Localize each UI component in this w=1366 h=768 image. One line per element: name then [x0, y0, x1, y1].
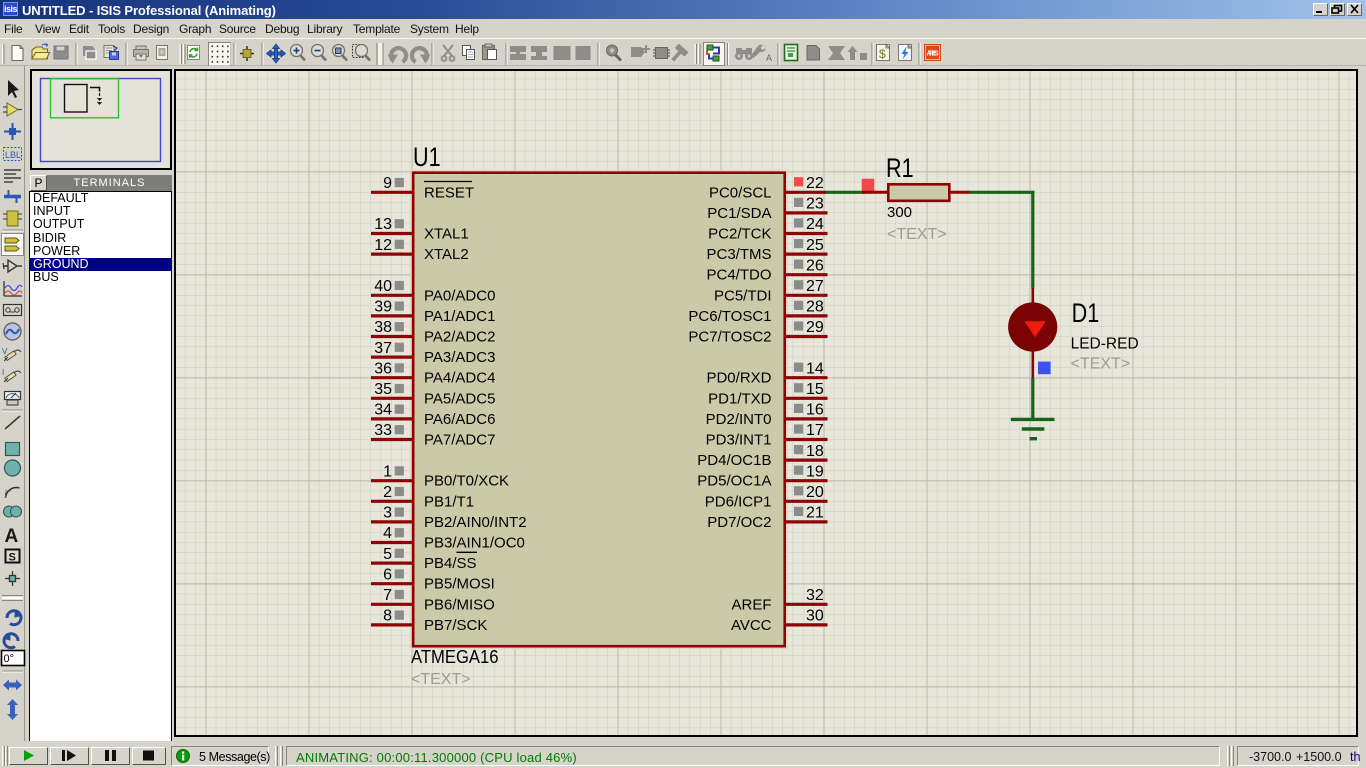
P button [30, 175, 47, 191]
U1 pin 24 (PC2/TCK) right stub + number [786, 216, 828, 233]
U1 pin 18 (PD4/OC1B) right stub + number [786, 443, 828, 460]
svg-text:20: 20 [806, 484, 824, 501]
U1 pin 35 (PA5/ADC5) left stub + number + state square [371, 381, 413, 398]
svg-text:RESET: RESET [424, 184, 474, 201]
svg-text:19: 19 [806, 463, 824, 480]
svg-text:1: 1 [383, 463, 392, 480]
svg-text:28: 28 [806, 299, 824, 316]
U1 pin 14 (PD0/RXD) right stub + number [786, 360, 828, 377]
animating status panel [286, 746, 1220, 766]
U1 pin 4 (PB3/AIN1/OC0) left stub + number + state square [371, 525, 413, 542]
svg-text:A: A [766, 53, 772, 63]
svg-text:PD4/OC1B: PD4/OC1B [697, 452, 771, 469]
svg-text:23: 23 [806, 196, 824, 213]
U1 pin 13 (XTAL1) left stub + number + state square [371, 216, 413, 233]
U1 pin 17 (PD3/INT1) right stub + number [786, 422, 828, 439]
svg-text:5: 5 [383, 546, 392, 563]
U1 pin 1 (PB0/T0/XCK) left stub + number + state square [371, 463, 413, 480]
svg-text:PA4/ADC4: PA4/ADC4 [424, 370, 495, 387]
svg-text:16: 16 [806, 402, 824, 419]
terminals list [29, 191, 172, 742]
svg-text:V: V [2, 347, 8, 356]
svg-text:6: 6 [383, 566, 392, 583]
svg-text:8: 8 [383, 608, 392, 625]
svg-text:36: 36 [374, 360, 392, 377]
svg-text:35: 35 [374, 381, 392, 398]
D1 reference label [1072, 299, 1100, 329]
svg-text:U1: U1 [413, 143, 441, 173]
svg-text:33: 33 [374, 422, 392, 439]
text script tool [4, 170, 21, 182]
2D circle tool [5, 460, 21, 476]
LED D1 body [1008, 302, 1057, 351]
menu bar [0, 19, 1366, 38]
separator [2, 596, 23, 601]
U1 pin 25 (PC3/TMS) right stub + number [786, 237, 828, 254]
U1 pin 32 (AREF) right stub + number [786, 587, 828, 604]
svg-text:PC7/TOSC2: PC7/TOSC2 [688, 329, 771, 346]
svg-text:22: 22 [806, 175, 824, 192]
svg-text:PC4/TDO: PC4/TDO [706, 267, 771, 284]
svg-text:PD0/RXD: PD0/RXD [706, 370, 771, 387]
svg-text:PA7/ADC7: PA7/ADC7 [424, 432, 495, 449]
bus tool [4, 190, 21, 203]
graph mode tool [4, 281, 22, 296]
svg-text:3: 3 [383, 505, 392, 522]
rotate clockwise tool [7, 610, 22, 625]
tape recorder tool [4, 305, 22, 316]
svg-text:PD3/INT1: PD3/INT1 [706, 432, 772, 449]
terminal mode tool [3, 260, 22, 272]
current probe tool [2, 368, 21, 382]
minimap resistor/wire mark [90, 88, 100, 92]
U1 pin 38 (PA2/ADC2) left stub + number + state square [371, 319, 413, 336]
svg-text:24: 24 [806, 216, 824, 233]
status bar [0, 741, 1366, 768]
svg-text:PC6/TOSC1: PC6/TOSC1 [688, 308, 771, 325]
svg-text:PB6/MISO: PB6/MISO [424, 596, 495, 613]
U1 pin name label RESET [424, 182, 474, 202]
U1 pin 5 (PB4/SS) left stub + number + state square [371, 546, 413, 563]
svg-text:PA2/ADC2: PA2/ADC2 [424, 329, 495, 346]
LED D1 cathode pin [1032, 352, 1035, 379]
svg-text:<TEXT>: <TEXT> [411, 671, 471, 688]
left tool column [0, 66, 26, 741]
U1 pin 2 (PB1/T1) left stub + number + state square [371, 484, 413, 501]
svg-text:17: 17 [806, 422, 824, 439]
wire U1 pin22 to R1 [826, 191, 865, 194]
svg-text:25: 25 [806, 237, 824, 254]
coordinates panel [1237, 746, 1359, 766]
U1 pin name label PB4/SS [424, 552, 477, 572]
svg-text:PB7/SCK: PB7/SCK [424, 617, 487, 634]
svg-text:XTAL2: XTAL2 [424, 246, 469, 263]
ground symbol [1011, 419, 1055, 438]
wire label tool LBL [4, 148, 22, 161]
svg-text:LBL: LBL [5, 150, 21, 160]
svg-text:XTAL1: XTAL1 [424, 226, 469, 243]
junction dot tool [4, 123, 21, 140]
U1 reference label [413, 143, 441, 173]
svg-text:PC0/SCL: PC0/SCL [709, 184, 772, 201]
window title bar [0, 0, 1366, 19]
svg-text:4: 4 [383, 525, 392, 542]
svg-text:7: 7 [383, 587, 392, 604]
svg-text:PC2/TCK: PC2/TCK [708, 226, 771, 243]
message panel [171, 746, 269, 766]
U1 pin 3 (PB2/AIN0/INT2) left stub + number + state square [371, 505, 413, 522]
svg-text:PD2/INT0: PD2/INT0 [706, 411, 772, 428]
U1 pin 34 (PA6/ADC6) left stub + number + state square [371, 402, 413, 419]
2D closed path tool [4, 506, 22, 517]
U1 pin 16 (PD2/INT0) right stub + number [786, 402, 828, 419]
U1 pin 26 (PC4/TDO) right stub + number [786, 257, 828, 274]
U1 pin 22 (PC0/SCL) right stub + number [786, 175, 828, 192]
U1 pin 36 (PA4/ADC4) left stub + number + state square [371, 360, 413, 377]
R1 reference label [886, 154, 914, 184]
svg-text:ATMEGA16: ATMEGA16 [411, 646, 498, 667]
svg-text:D1: D1 [1072, 299, 1100, 329]
svg-text:30: 30 [806, 608, 824, 625]
svg-text:PC3/TMS: PC3/TMS [706, 246, 771, 263]
svg-text:29: 29 [806, 319, 824, 336]
TERMINALS header [47, 175, 172, 191]
svg-text:<TEXT>: <TEXT> [1071, 356, 1131, 373]
rotation angle box 0deg [2, 651, 25, 666]
logic-state indicator (red) on wire before R1 [862, 179, 875, 192]
svg-text:34: 34 [374, 402, 392, 419]
U1 pin 21 (PD7/OC2) right stub + number [786, 505, 828, 522]
svg-text:PD6/ICP1: PD6/ICP1 [705, 493, 772, 510]
svg-text:$: $ [879, 47, 886, 61]
svg-text:PB3/AIN1/OC0: PB3/AIN1/OC0 [424, 535, 525, 552]
U1 pin 8 (PB7/SCK) left stub + number + state square [371, 608, 413, 625]
svg-text:9: 9 [383, 175, 392, 192]
svg-text:40: 40 [374, 278, 392, 295]
rotate anticlockwise tool [3, 633, 18, 648]
svg-text:LED-RED: LED-RED [1071, 336, 1139, 353]
U1 pin 40 (PA0/ADC0) left stub + number + state square [371, 278, 413, 295]
svg-text:PD5/OC1A: PD5/OC1A [697, 473, 771, 490]
svg-text:AVCC: AVCC [731, 617, 772, 634]
mirror horizontal tool [3, 680, 22, 691]
U1 pin 33 (PA7/ADC7) left stub + number + state square [371, 422, 413, 439]
mirror vertical tool [7, 699, 18, 720]
svg-text:PB5/MOSI: PB5/MOSI [424, 576, 495, 593]
svg-text:0°: 0° [4, 653, 15, 665]
U1 pin 9 (RESET) left stub + number + state square [371, 175, 413, 192]
svg-text:PA6/ADC6: PA6/ADC6 [424, 411, 495, 428]
svg-text:PD7/OC2: PD7/OC2 [707, 514, 771, 531]
subcircuit tool [3, 211, 22, 226]
toolbar [0, 38, 1366, 66]
2D arc tool [6, 488, 20, 498]
2D box tool [6, 443, 20, 456]
U1 pin 28 (PC6/TOSC1) right stub + number [786, 299, 828, 316]
U1 pin 23 (PC1/SDA) right stub + number [786, 196, 828, 213]
U1 pin 12 (XTAL2) left stub + number + state square [371, 237, 413, 254]
svg-text:18: 18 [806, 443, 824, 460]
marker tool [5, 571, 20, 586]
step button [50, 747, 89, 765]
svg-text:32: 32 [806, 587, 824, 604]
U1 pin 6 (PB5/MOSI) left stub + number + state square [371, 566, 413, 583]
U1 pin 19 (PD5/OC1A) right stub + number [786, 463, 828, 480]
minimap sheet border [41, 79, 161, 162]
svg-text:ARES: ARES [927, 51, 939, 58]
svg-text:2: 2 [383, 484, 392, 501]
wire LED cathode to ground [1031, 378, 1034, 420]
separator [2, 410, 23, 411]
resistor R1 [862, 184, 971, 201]
device/part mode (selected) [2, 234, 24, 256]
svg-text:PD1/TXD: PD1/TXD [708, 390, 772, 407]
svg-text:300: 300 [887, 204, 912, 221]
svg-text:14: 14 [806, 360, 824, 377]
2D symbol tool [6, 550, 20, 564]
schematic edit canvas [174, 69, 1358, 737]
IC U1 ATMEGA16 body [411, 170, 787, 648]
svg-text:15: 15 [806, 381, 824, 398]
U1 part name ATMEGA16 [411, 646, 498, 667]
separator [2, 671, 23, 672]
stop button [132, 747, 166, 765]
svg-text:21: 21 [806, 505, 824, 522]
U1 pin 20 (PD6/ICP1) right stub + number [786, 484, 828, 501]
U1 pin 37 (PA3/ADC3) left stub + number + state square [371, 340, 413, 357]
minimap led/ground mark [98, 93, 102, 104]
svg-text:27: 27 [806, 278, 824, 295]
component mode tool (gate) [3, 103, 22, 116]
svg-text:PC5/TDI: PC5/TDI [714, 287, 772, 304]
LED D1 anode pin [1032, 288, 1035, 304]
svg-text:AREF: AREF [731, 596, 771, 613]
svg-text:26: 26 [806, 257, 824, 274]
minimap green view rectangle [51, 79, 119, 118]
svg-text:38: 38 [374, 319, 392, 336]
U1 pin 30 (AVCC) right stub + number [786, 608, 828, 625]
svg-text:R1: R1 [886, 154, 914, 184]
svg-text:PB1/T1: PB1/T1 [424, 493, 474, 510]
pause button [91, 747, 130, 765]
U1 pin 29 (PC7/TOSC2) right stub + number [786, 319, 828, 336]
virtual instruments tool [5, 392, 21, 406]
wire R1 to corner node [970, 191, 1035, 194]
svg-text:PA5/ADC5: PA5/ADC5 [424, 390, 495, 407]
selection arrow tool [8, 80, 19, 98]
svg-text:PC1/SDA: PC1/SDA [707, 205, 771, 222]
svg-text:12: 12 [374, 237, 392, 254]
2D line tool [5, 416, 20, 429]
svg-text:PB4/SS: PB4/SS [424, 555, 477, 572]
U1 pin 39 (PA1/ADC1) left stub + number + state square [371, 299, 413, 316]
overview minimap [30, 69, 172, 170]
svg-text:PA3/ADC3: PA3/ADC3 [424, 349, 495, 366]
svg-text:PA0/ADC0: PA0/ADC0 [424, 287, 495, 304]
svg-text:<TEXT>: <TEXT> [887, 226, 947, 243]
voltage probe tool [2, 347, 21, 361]
separator [2, 230, 23, 231]
U1 pin 27 (PC5/TDI) right stub + number [786, 278, 828, 295]
svg-text:13: 13 [374, 216, 392, 233]
svg-text:37: 37 [374, 340, 392, 357]
svg-text:S: S [9, 552, 16, 564]
logic-state indicator (blue) below LED [1038, 362, 1051, 375]
U1 pin 15 (PD1/TXD) right stub + number [786, 381, 828, 398]
svg-text:PB2/AIN0/INT2: PB2/AIN0/INT2 [424, 514, 527, 531]
U1 pin 7 (PB6/MISO) left stub + number + state square [371, 587, 413, 604]
svg-text:PA1/ADC1: PA1/ADC1 [424, 308, 495, 325]
play button [9, 747, 48, 765]
svg-text:A: A [5, 526, 19, 547]
wire vertical corner down to LED [1031, 191, 1034, 289]
svg-text:39: 39 [374, 299, 392, 316]
minimap chip outline [65, 85, 88, 113]
svg-text:I: I [2, 368, 4, 377]
generator mode tool [4, 323, 21, 340]
svg-text:PB0/T0/XCK: PB0/T0/XCK [424, 473, 509, 490]
